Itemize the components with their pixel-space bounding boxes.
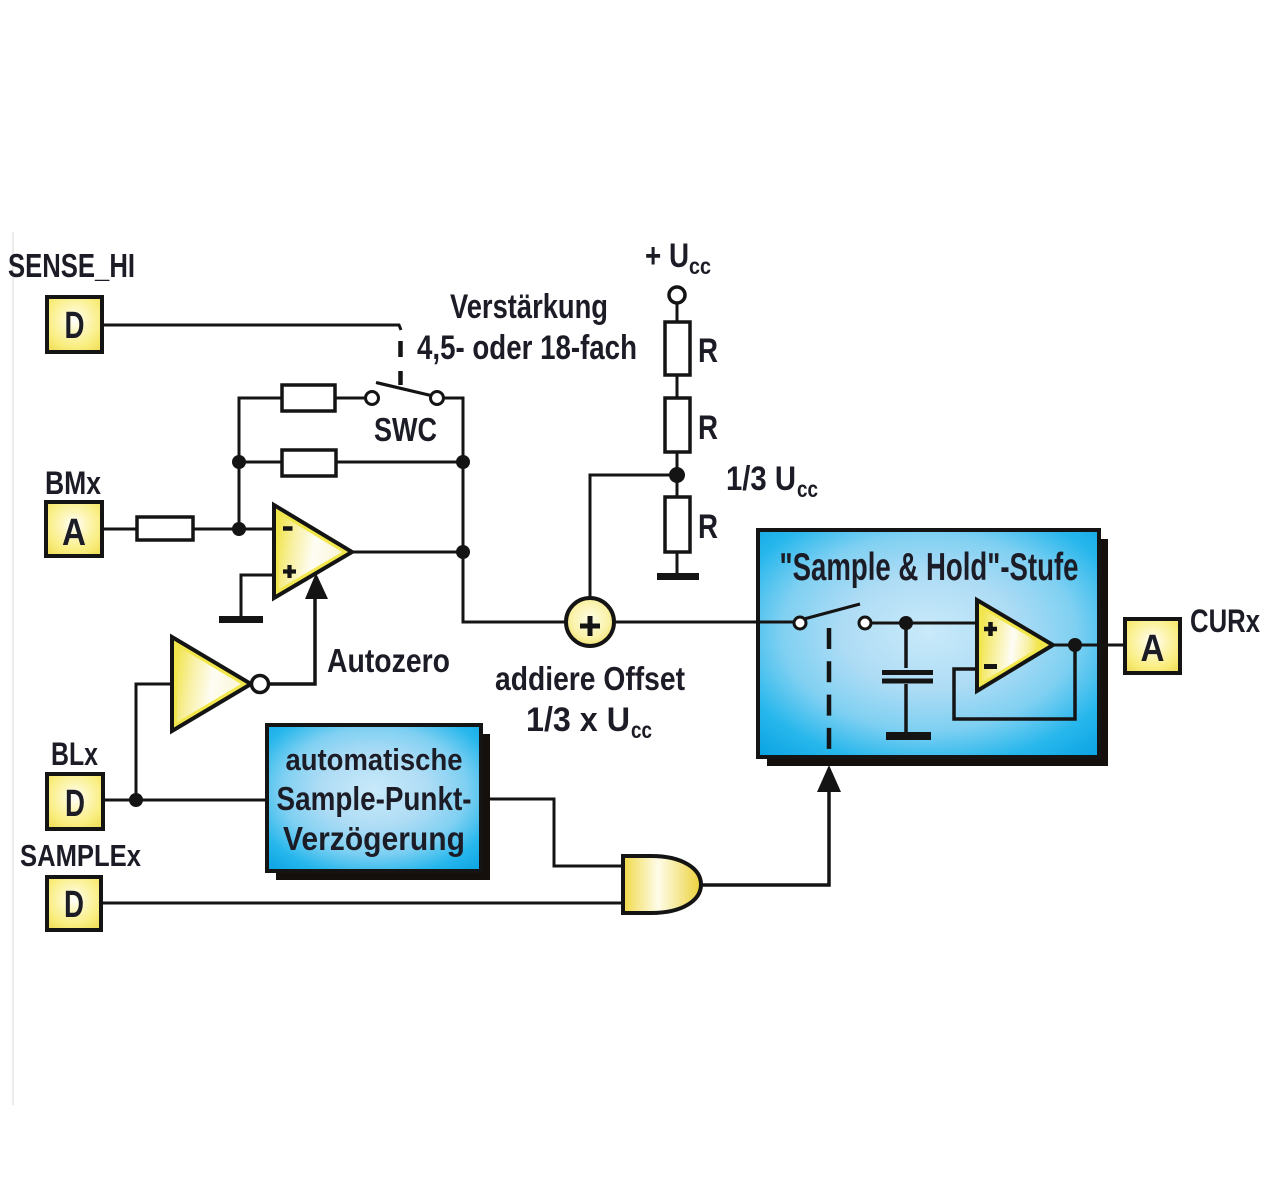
svg-text:1/3 U: 1/3 U — [726, 460, 796, 498]
wire delay box to AND — [490, 799, 623, 866]
wire SAMPLEx run — [101, 902, 623, 905]
svg-text:SENSE_HI: SENSE_HI — [8, 247, 135, 284]
faint page-left rule — [12, 232, 14, 1105]
wire feedback loop — [954, 645, 1075, 719]
wire tap to summing node — [590, 475, 677, 598]
junction dot divider tap — [669, 467, 685, 483]
resistor R2 — [665, 398, 690, 452]
switch SWC arm — [376, 383, 433, 397]
svg-text:cc: cc — [631, 717, 652, 743]
junction dot hold cap — [899, 616, 913, 630]
resistor Rf1 — [282, 385, 335, 411]
port A2 (CURx pad) — [1125, 619, 1180, 673]
svg-text:A: A — [62, 512, 86, 554]
S&H box shadow — [767, 539, 1108, 766]
wire Ucc to R1 — [676, 303, 679, 322]
summing node S1 — [566, 598, 614, 646]
inverter U2 — [172, 637, 251, 731]
resistor Rf1 wires — [335, 397, 366, 400]
delay box — [267, 725, 481, 871]
switch S&H contact left — [794, 617, 806, 629]
wire AND output — [701, 791, 829, 885]
wire R2 to R3 through tap — [676, 452, 679, 497]
svg-text:BLx: BLx — [51, 736, 98, 772]
junction dot BLx — [129, 793, 143, 807]
op-amp U1 — [274, 505, 352, 598]
switch SWC contact left — [366, 392, 379, 405]
resistor R1 — [665, 322, 690, 375]
resistor Rf2 wires — [239, 461, 282, 464]
junction dot op-amp output rail — [456, 545, 470, 559]
svg-text:R: R — [698, 332, 718, 370]
svg-text:D: D — [65, 305, 85, 347]
port A1 (BMx pad) — [46, 502, 102, 556]
resistor Rf2 — [282, 450, 336, 476]
switch S&H arm — [804, 604, 860, 619]
wire right rail — [443, 398, 566, 622]
wire BMx to Rin — [102, 528, 137, 531]
port D1 (SENSE_HI pad) — [47, 297, 102, 352]
svg-text:D: D — [64, 884, 84, 926]
wire SENSE_HI to switch — [102, 325, 401, 330]
wire dashed control SWC — [398, 341, 403, 385]
svg-text:D: D — [65, 783, 85, 825]
wire S&H output — [1053, 644, 1125, 647]
ground bar divider — [657, 573, 699, 580]
svg-text:Verzögerung: Verzögerung — [283, 820, 465, 857]
svg-text:R: R — [698, 508, 718, 546]
wire inverter input — [136, 684, 172, 800]
AND gate G1 — [623, 856, 701, 913]
svg-text:A: A — [1141, 628, 1165, 670]
svg-text:4,5- oder 18-fach: 4,5- oder 18-fach — [417, 329, 637, 367]
op-amp U3 — [977, 600, 1053, 691]
label + Ucc — [645, 237, 711, 279]
svg-text:addiere Offset: addiere Offset — [495, 660, 685, 697]
svg-text:SAMPLEx: SAMPLEx — [20, 838, 142, 873]
ground bar op-amp — [219, 616, 263, 623]
arrowhead into S&H — [817, 765, 841, 792]
svg-text:Sample-Punkt-: Sample-Punkt- — [277, 780, 472, 817]
junction dot right rail upper — [456, 455, 470, 469]
wire non-inverting input to ground — [241, 575, 274, 617]
switch SWC contact right — [431, 392, 444, 405]
switch S&H contact right — [859, 617, 871, 629]
wire BLx run — [103, 799, 267, 802]
autozero arrowhead — [305, 573, 328, 599]
label 1/3 Ucc — [726, 460, 818, 502]
S&H box — [758, 530, 1099, 757]
wire Rin to op-amp — [193, 528, 274, 531]
label 1/3 x Ucc — [526, 701, 652, 743]
resistor Rin — [137, 517, 193, 540]
svg-text:"Sample & Hold"-Stufe: "Sample & Hold"-Stufe — [780, 546, 1079, 589]
wire summing node to S&H box — [614, 621, 793, 624]
wire op-amp output — [352, 551, 463, 554]
svg-text:+ U: + U — [645, 237, 689, 275]
wire R1-R2 — [676, 375, 679, 398]
autozero arrow wire — [268, 598, 315, 684]
wire switch to op-amp — [871, 622, 977, 625]
wire R3 to ground — [676, 552, 679, 574]
resistor R3 — [665, 497, 690, 552]
svg-text:Autozero: Autozero — [327, 642, 450, 679]
terminal + Ucc — [669, 287, 685, 303]
svg-text:Verstärkung: Verstärkung — [450, 288, 608, 326]
dashed control line S&H — [827, 628, 832, 755]
svg-text:R: R — [698, 409, 718, 447]
wire into S&H switch — [758, 621, 793, 624]
svg-text:SWC: SWC — [374, 411, 437, 448]
inverter bubble — [252, 676, 269, 693]
svg-text:automatische: automatische — [286, 742, 463, 777]
junction dot inverting input — [232, 522, 246, 536]
delay box shadow — [276, 734, 490, 880]
capacitor C1 — [882, 623, 933, 740]
svg-text:cc: cc — [689, 253, 711, 279]
svg-text:cc: cc — [797, 476, 818, 502]
port D3 (SAMPLEx pad) — [47, 877, 101, 930]
port D2 (BLx pad) — [47, 774, 103, 829]
svg-text:CURx: CURx — [1190, 603, 1260, 639]
junction dot S&H output — [1068, 638, 1082, 652]
junction dot left rail upper — [232, 455, 246, 469]
svg-text:BMx: BMx — [45, 465, 101, 501]
svg-text:1/3 x U: 1/3 x U — [526, 701, 630, 739]
